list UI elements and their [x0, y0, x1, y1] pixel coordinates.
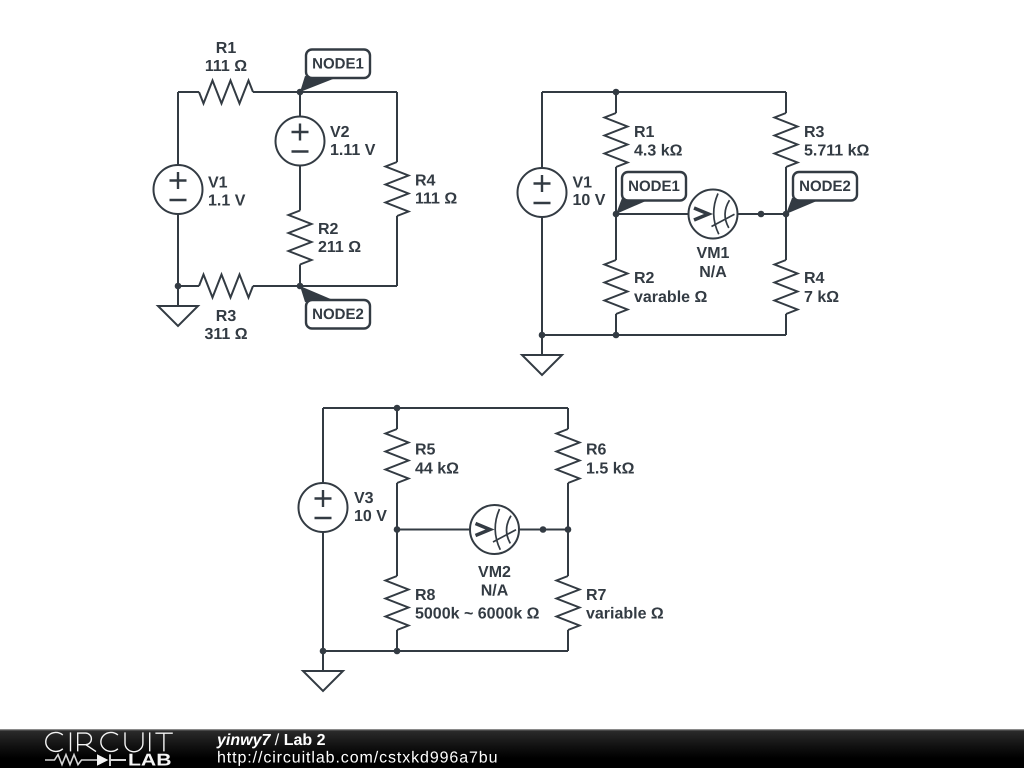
svg-text:V2: V2: [330, 124, 350, 141]
node NODE2 junction (bridge): [783, 211, 790, 218]
wire: [615, 314, 617, 335]
wire: [397, 529, 470, 531]
svg-text:R3: R3: [804, 124, 825, 141]
wire: [323, 407, 568, 409]
resistor R8: [386, 576, 409, 630]
resistor R4 (bridge): [775, 260, 798, 314]
voltmeter VM1: [689, 190, 738, 239]
svg-text:R4: R4: [804, 270, 825, 287]
node NODE1: [300, 50, 370, 93]
svg-text:1.1 V: 1.1 V: [208, 193, 246, 210]
svg-text:5000k ~ 6000k Ω: 5000k ~ 6000k Ω: [415, 606, 540, 623]
wire: [299, 166, 301, 211]
svg-text:R8: R8: [415, 587, 436, 604]
svg-text:varable Ω: varable Ω: [634, 289, 707, 306]
svg-text:NODE1: NODE1: [312, 56, 364, 73]
svg-text:variable Ω: variable Ω: [586, 606, 664, 623]
resistor R6: [557, 429, 580, 483]
svg-text:N/A: N/A: [481, 583, 509, 600]
junction: [394, 648, 401, 655]
svg-text:1.5 kΩ: 1.5 kΩ: [586, 461, 635, 478]
wire: [541, 92, 543, 168]
svg-text:R4: R4: [415, 173, 436, 190]
wire: [785, 92, 787, 113]
wire: [542, 91, 786, 93]
wire: [567, 483, 569, 576]
svg-text:111 Ω: 111 Ω: [415, 191, 457, 208]
svg-text:NODE2: NODE2: [799, 178, 851, 195]
svg-text:http://circuitlab.com/cstxkd99: http://circuitlab.com/cstxkd996a7bu: [217, 750, 498, 767]
svg-text:V1: V1: [208, 175, 228, 192]
CircuitLab logo: resistor-diode squiggle: [45, 754, 126, 766]
svg-text:NODE2: NODE2: [312, 306, 364, 323]
svg-text:R2: R2: [634, 270, 655, 287]
voltage source V1b: [518, 168, 567, 217]
wire: [177, 214, 179, 286]
VM1 terminal dot: [758, 211, 765, 218]
node NODE1 junction (bridge): [613, 211, 620, 218]
svg-text:V3: V3: [354, 490, 374, 507]
svg-text:R2: R2: [318, 221, 339, 238]
VM2 terminal dot: [540, 526, 547, 533]
wire: [177, 92, 179, 165]
wire: [785, 314, 787, 335]
ground: [303, 651, 343, 691]
svg-text:R7: R7: [586, 587, 607, 604]
node NODE1: [616, 172, 686, 214]
svg-text:7 kΩ: 7 kΩ: [804, 289, 839, 306]
wire: [178, 91, 199, 93]
wire: [396, 92, 398, 162]
wire: [299, 92, 301, 117]
svg-text:V1: V1: [573, 175, 593, 192]
node NODE2: [300, 286, 370, 329]
resistor R1 (bridge): [605, 113, 628, 167]
svg-text:VM2: VM2: [478, 564, 511, 581]
wire: [253, 285, 300, 287]
CircuitLab logo: CIRCUIT lettering: [46, 732, 173, 751]
junction: [613, 332, 620, 339]
voltage source V1: [154, 165, 203, 214]
junction: [539, 332, 546, 339]
ground: [522, 335, 562, 375]
wire: [396, 483, 398, 576]
resistor R1: [199, 81, 253, 104]
voltage source V3: [299, 483, 348, 532]
svg-text:4.3 kΩ: 4.3 kΩ: [634, 143, 683, 160]
svg-text:R3: R3: [216, 308, 237, 325]
svg-text:211 Ω: 211 Ω: [318, 239, 361, 256]
wire: [542, 334, 786, 336]
wire: [567, 408, 569, 429]
svg-text:R6: R6: [586, 442, 607, 459]
resistor R3: [199, 275, 253, 298]
node NODE2: [786, 172, 857, 214]
svg-text:111 Ω: 111 Ω: [205, 58, 247, 75]
wire: [300, 91, 397, 93]
svg-text:yinwy7 / Lab 2: yinwy7 / Lab 2: [216, 732, 326, 749]
svg-text:R5: R5: [415, 442, 436, 459]
svg-text:5.711 kΩ: 5.711 kΩ: [804, 143, 870, 160]
node NODE2 junction: [297, 283, 304, 290]
resistor R2: [289, 211, 312, 265]
svg-text:VM1: VM1: [697, 245, 730, 262]
svg-text:NODE1: NODE1: [628, 178, 680, 195]
wire: [322, 408, 324, 483]
svg-text:N/A: N/A: [699, 264, 727, 281]
wire: [541, 217, 543, 335]
wire: [300, 285, 397, 287]
svg-text:10 V: 10 V: [354, 508, 387, 525]
junction: [320, 648, 327, 655]
wire: [567, 630, 569, 651]
svg-text:R1: R1: [634, 124, 655, 141]
voltage source V2: [276, 117, 325, 166]
wire: [178, 285, 199, 287]
junction: [394, 405, 401, 412]
junction: [175, 283, 182, 290]
svg-text:LAB: LAB: [128, 751, 172, 768]
node NODE1 junction: [297, 89, 304, 96]
resistor R7: [557, 576, 580, 630]
wire: [615, 92, 617, 113]
wire: [615, 167, 617, 260]
junction: [394, 526, 401, 533]
wire: [785, 167, 787, 260]
wire: [396, 630, 398, 651]
resistor R5: [386, 429, 409, 483]
svg-text:10 V: 10 V: [573, 192, 606, 209]
resistor R3 (bridge): [775, 113, 798, 167]
voltmeter VM2: [470, 505, 519, 554]
svg-text:311 Ω: 311 Ω: [204, 326, 247, 343]
wire: [323, 650, 568, 652]
wire: [519, 529, 568, 531]
junction: [613, 89, 620, 96]
wire: [396, 408, 398, 429]
svg-text:1.11 V: 1.11 V: [330, 142, 376, 159]
wire: [322, 532, 324, 651]
wire: [396, 216, 398, 286]
svg-text:R1: R1: [216, 40, 237, 57]
resistor R2 (bridge): [605, 260, 628, 314]
wire: [738, 213, 787, 215]
junction: [565, 526, 572, 533]
wire: [253, 91, 300, 93]
resistor R4: [386, 162, 409, 216]
ground: [158, 286, 198, 326]
wire: [299, 265, 301, 287]
wire: [616, 213, 689, 215]
svg-text:44 kΩ: 44 kΩ: [415, 461, 459, 478]
